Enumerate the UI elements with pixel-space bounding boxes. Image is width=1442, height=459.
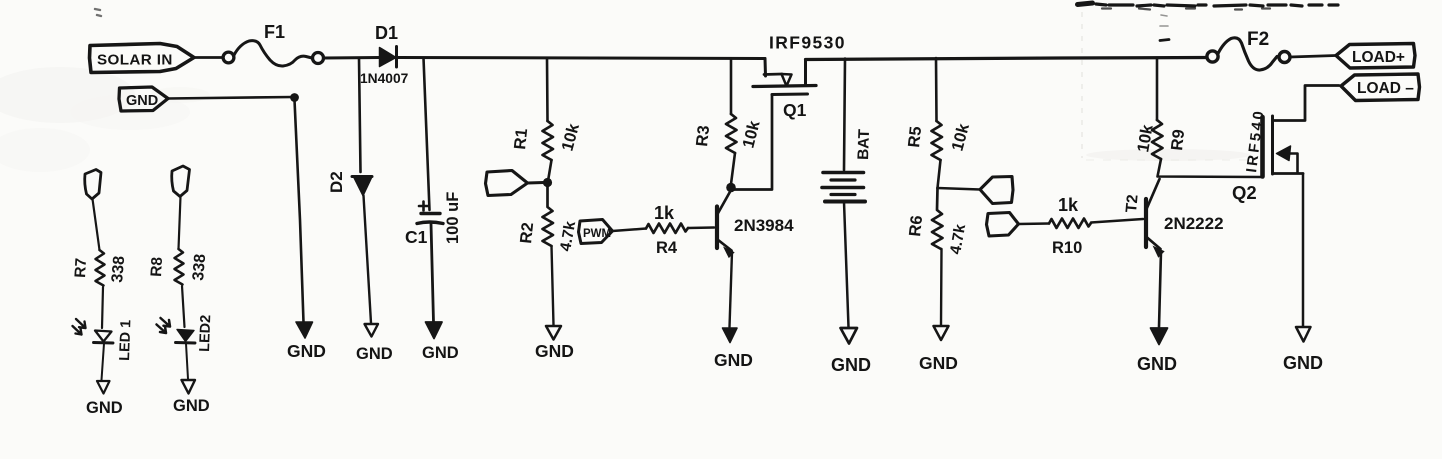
fuse F1 [223, 22, 323, 66]
battery BAT [822, 128, 873, 201]
wire R7 to LED1 [102, 287, 103, 328]
svg-text:GND: GND [422, 344, 459, 362]
wire R5 to junction [938, 160, 941, 188]
svg-text:GND: GND [1137, 354, 1177, 374]
svg-text:F2: F2 [1247, 29, 1269, 50]
node PWM flag [579, 220, 613, 244]
svg-text:R8: R8 [148, 256, 166, 277]
resistor R1 [511, 121, 583, 160]
svg-text:338: 338 [109, 255, 128, 283]
wire R9 branch from rail [1156, 58, 1159, 120]
wire rail F1 to Q1 [324, 58, 766, 59]
junction dot GND corner [290, 93, 299, 102]
wire BAT branch from rail [844, 59, 845, 171]
junction dot R3/collector [726, 183, 736, 193]
wire flag to R8 [179, 197, 181, 250]
scan smudge left [0, 67, 210, 172]
mosfet Q1 IRF9530 [753, 33, 846, 121]
wire emitter to ground [730, 252, 733, 327]
wire R3 branch from rail [730, 59, 733, 115]
wire R9 to gate rail [1158, 159, 1262, 177]
svg-text:GND: GND [287, 341, 326, 361]
wire LED2 to ground [186, 344, 188, 380]
wire GND flag to corner [168, 97, 293, 99]
node SOLAR IN flag [90, 44, 195, 73]
resistor R4 [646, 203, 688, 257]
wire C1 branch from rail [424, 58, 430, 210]
resistor R6 [906, 188, 969, 256]
svg-text:D1: D1 [375, 23, 398, 43]
wire R6 to ground [940, 249, 943, 325]
ground (R2, open) [535, 326, 574, 361]
node flag (drive input, empty, point right) [987, 213, 1019, 237]
svg-text:R10: R10 [1052, 239, 1082, 257]
wire PWM to R4 [613, 229, 647, 232]
wire F2 to LOAD+ [1290, 56, 1336, 58]
node flag (LED1 column top) [85, 170, 101, 200]
ground (BAT, open large) [831, 328, 871, 375]
resistor R2 [517, 185, 579, 253]
ground (LED1, open) [86, 381, 123, 417]
resistor R9 [1134, 120, 1188, 159]
svg-text:GND: GND [126, 93, 158, 109]
resistor R10 [1049, 195, 1091, 257]
scan artifact: dark dashed strip top right [95, 3, 1338, 41]
wire flag to R7 [93, 199, 100, 250]
resistor R7 [72, 250, 128, 286]
svg-text:R1: R1 [511, 128, 531, 151]
svg-text:GND: GND [714, 350, 753, 370]
svg-text:R6: R6 [906, 215, 926, 238]
svg-text:1N4007: 1N4007 [360, 71, 409, 86]
svg-text:GND: GND [535, 341, 574, 361]
node GND input flag [119, 87, 168, 111]
wire R5 branch from rail [935, 58, 938, 121]
resistor R3 [693, 114, 764, 153]
svg-text:LED 1: LED 1 [117, 320, 134, 362]
transistor Q3 2N3984 [717, 190, 794, 257]
svg-text:PWM: PWM [583, 228, 611, 240]
svg-text:1k: 1k [654, 203, 675, 223]
fuse F2 [1207, 29, 1290, 70]
svg-text:T2: T2 [1123, 194, 1142, 214]
svg-text:R9: R9 [1168, 129, 1188, 152]
wire R3 to junction [731, 153, 735, 184]
node LOAD+ flag [1336, 44, 1415, 69]
svg-text:R3: R3 [693, 125, 713, 148]
svg-text:GND: GND [919, 353, 958, 373]
wire R4 to base [688, 226, 714, 229]
wire R1 to junction [548, 160, 552, 181]
svg-text:GND: GND [1283, 353, 1323, 373]
wire D2 to ground [364, 196, 372, 324]
svg-text:GND: GND [831, 355, 871, 375]
junction dot R1/R2 [543, 178, 552, 187]
svg-text:LOAD+: LOAD+ [1352, 49, 1405, 66]
svg-text:C1: C1 [405, 227, 428, 247]
ground (R6, open) [919, 326, 958, 373]
LED LED1 [73, 319, 135, 361]
svg-text:IRF9530: IRF9530 [769, 33, 846, 53]
svg-text:GND: GND [173, 397, 210, 415]
resistor R8 [148, 249, 209, 285]
node flag (feedback, empty) [486, 171, 544, 196]
wire D2 branch from rail [359, 59, 361, 173]
wire solar-in to fuse [194, 56, 222, 59]
wire junction to Q1 gate [733, 95, 772, 190]
scan artifact: faint pencil box right [1082, 12, 1252, 161]
svg-text:GND: GND [86, 399, 123, 417]
svg-text:LED2: LED2 [197, 315, 214, 353]
node flag (LED2 column top) [172, 166, 190, 197]
mosfet Q2 IRF540 [1232, 86, 1339, 204]
svg-text:2N2222: 2N2222 [1164, 214, 1224, 233]
wire LED1 to ground [102, 344, 105, 381]
wire R8 to LED2 [182, 286, 185, 327]
svg-text:1k: 1k [1058, 195, 1079, 215]
svg-text:D2: D2 [327, 171, 346, 193]
svg-text:R4: R4 [656, 239, 678, 257]
wire GND corner down [295, 100, 304, 322]
svg-text:2N3984: 2N3984 [734, 216, 794, 235]
svg-text:F1: F1 [264, 22, 285, 42]
svg-text:Q1: Q1 [783, 100, 807, 120]
diode D1 [360, 23, 409, 86]
svg-text:GND: GND [356, 345, 393, 363]
svg-text:LOAD –: LOAD – [1357, 80, 1414, 97]
ground (D2, open) [356, 324, 393, 363]
wire flag to R10 [1019, 222, 1050, 225]
wire Q2 source to ground [1302, 174, 1305, 327]
svg-text:Q2: Q2 [1232, 182, 1257, 203]
svg-text:R7: R7 [72, 258, 90, 279]
wire R2 to ground [552, 246, 554, 325]
svg-text:R2: R2 [517, 222, 537, 245]
svg-text:BAT: BAT [855, 128, 873, 160]
svg-text:R5: R5 [905, 126, 925, 149]
wire R10 to T2 base [1091, 219, 1143, 223]
svg-text:100 uF: 100 uF [444, 192, 462, 244]
ground (Q2, open) [1283, 327, 1323, 373]
node flag (battery sense, empty, point left) [980, 177, 1013, 204]
svg-text:SOLAR IN: SOLAR IN [97, 52, 173, 69]
wire BAT to ground [844, 202, 849, 327]
wire R1 branch from rail [546, 58, 549, 121]
ground (C1, filled) [422, 322, 459, 362]
resistor R5 [905, 121, 973, 160]
ground (solar gnd, filled) [287, 322, 326, 361]
ground (T2, filled) [1137, 328, 1177, 374]
node LOAD- flag [1341, 74, 1420, 101]
LED LED2 [157, 315, 215, 353]
wire rail Q1 to F2 [806, 58, 1208, 60]
svg-text:338: 338 [190, 253, 209, 281]
diode D2 [327, 171, 372, 195]
ground (LED2, open) [173, 380, 210, 415]
wire junction to sense flag [938, 188, 981, 190]
wire C1 to ground [431, 224, 434, 323]
wire T2 emitter to ground [1159, 251, 1161, 327]
transistor T2 2N2222 [1123, 179, 1224, 257]
capacitor C1 [405, 192, 462, 247]
ground (2N3984, filled) [714, 328, 753, 370]
